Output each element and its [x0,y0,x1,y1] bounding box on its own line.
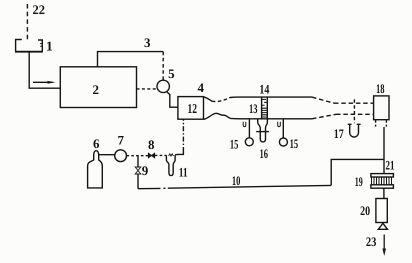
svg-text:3: 3 [144,35,151,50]
thermowell 16 [258,119,268,142]
flowmeter 7 [115,150,127,162]
flow arrow [33,81,53,83]
joint glyph left [243,122,246,127]
joint glyph right [278,122,281,127]
wire vessel 1 to box 2 [29,52,60,88]
dashed takeoff to trap 17 [353,99,355,123]
heater coil 14 [262,97,268,119]
clamp tick on 16 [256,131,269,133]
svg-text:10: 10 [232,173,241,188]
svg-text:6: 6 [93,136,100,151]
pump 5 [157,80,169,92]
svg-text:22: 22 [33,2,46,17]
svg-text:13: 13 [249,101,258,116]
svg-text:9: 9 [142,163,149,178]
wire bubbler 11 up to box 12 [175,152,183,155]
svg-text:21: 21 [386,158,395,173]
wire riser from line 10 to junction [331,159,384,185]
bulb 15 left [245,138,253,146]
dashed wire box 2 to pump 5 [137,88,157,90]
wire 18 down to flow cell 19 [383,127,385,174]
svg-text:17: 17 [334,126,344,141]
bubbler 20 [376,199,387,223]
svg-text:2: 2 [92,82,99,97]
svg-text:12: 12 [187,101,197,116]
valve 8 [148,153,154,158]
exhaust arrow 23 [383,235,385,252]
svg-text:15: 15 [290,136,299,151]
svg-text:23: 23 [366,234,377,249]
svg-text:20: 20 [360,203,370,218]
svg-text:7: 7 [117,133,124,148]
line 10 [138,187,161,189]
bubbler 11 [166,155,175,176]
dotted wire valve 8 to bubbler 11 [155,154,167,156]
svg-text:14: 14 [259,81,269,96]
tube 4 top wall [204,97,212,101]
wire cylinder 6 to flowmeter 7 [99,154,115,156]
svg-text:8: 8 [148,137,155,152]
wire: dashed sample feed line 22 [26,4,28,42]
box 12 [178,97,204,120]
svg-text:5: 5 [168,66,175,81]
box 2 [60,67,136,108]
flow cell 19 / frit 21 [371,174,394,189]
wire valve 9 down [137,174,139,189]
svg-text:18: 18 [376,81,385,96]
right takeoff wire to bulb 15 [282,119,284,138]
svg-text:15: 15 [230,136,239,151]
wire 3 [98,52,164,67]
left takeoff wire to bulb 15 [248,119,250,137]
joint zigzag on 11 [169,154,174,156]
svg-text:1: 1 [46,39,53,54]
vessel 1 [16,40,43,52]
wire pump 5 to box 12 [167,92,178,108]
svg-text:16: 16 [260,146,269,161]
wire 19 to bubbler 20 [383,188,385,198]
absorber 18 [374,96,389,120]
trap 17 [348,123,361,125]
svg-text:11: 11 [179,164,188,179]
socket below 18 [376,120,387,126]
bulb 15 right [279,138,287,146]
svg-text:19: 19 [355,174,363,189]
tee down to valve 9 [137,156,139,167]
svg-text:4: 4 [198,80,205,95]
gas cylinder 6 [88,151,103,188]
tube 4 bottom wall [204,113,313,119]
dotted wire 7 to valve 8 [127,155,149,157]
outlet funnel below 20 [378,223,387,229]
valve 9 [135,167,141,174]
